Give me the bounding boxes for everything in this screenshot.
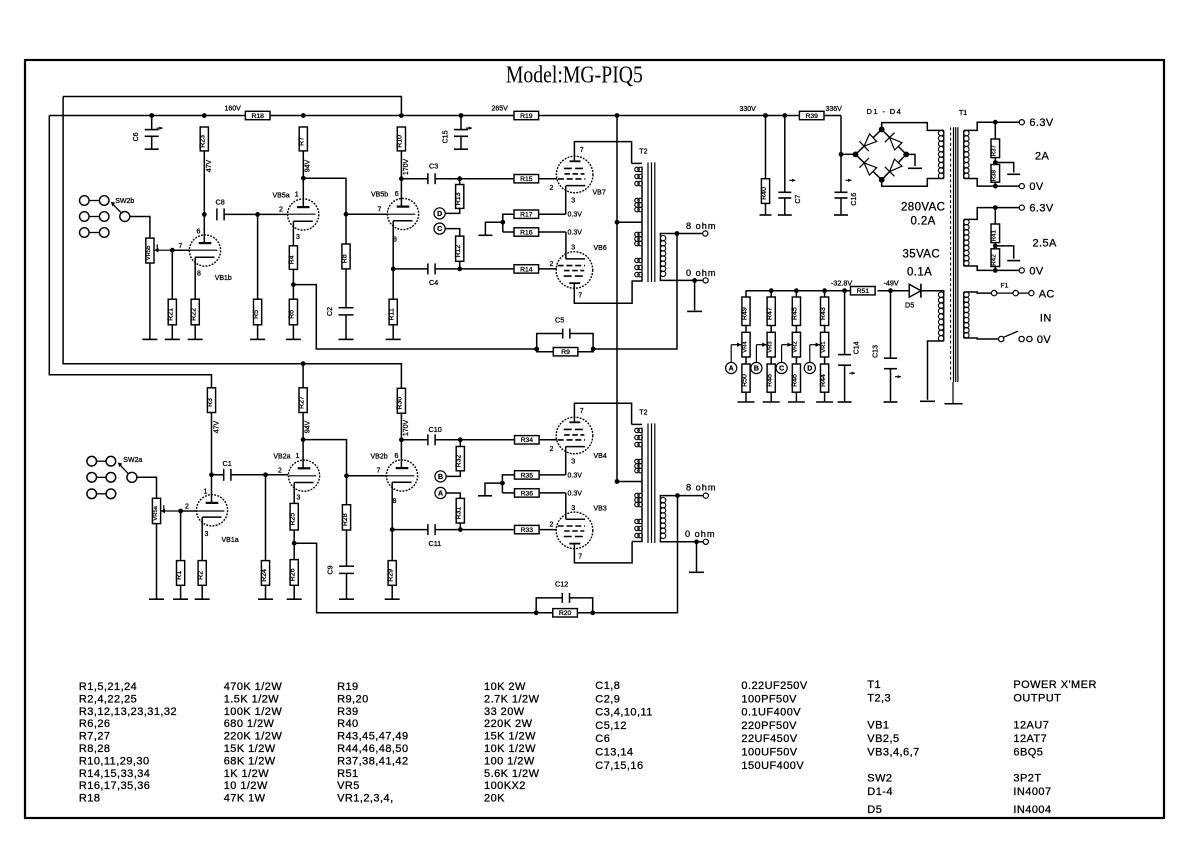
svg-text:R9: R9 [561, 349, 570, 356]
capacitor C7 [778, 179, 802, 204]
svg-text:SW2a: SW2a [123, 457, 142, 464]
resistor R6 [289, 299, 298, 325]
wire R30 to plate node [400, 413, 402, 440]
svg-text:R40: R40 [337, 718, 359, 730]
junction 0 ohm [692, 278, 697, 283]
transformer T1 primary 35VAC [938, 292, 943, 341]
resistor R41 [991, 224, 1000, 243]
svg-text:0V: 0V [1037, 334, 1052, 346]
svg-text:15K 1/2W: 15K 1/2W [224, 743, 276, 755]
svg-text:C9: C9 [328, 565, 335, 574]
svg-text:280VAC: 280VAC [901, 202, 945, 214]
svg-text:0 ohm: 0 ohm [685, 529, 716, 539]
junction 0 ohm lower [694, 539, 699, 544]
svg-text:T2,3: T2,3 [867, 693, 891, 705]
svg-text:VB2,5: VB2,5 [867, 733, 899, 745]
resistor VR2 [792, 332, 800, 357]
svg-text:R39: R39 [337, 706, 359, 718]
label VB6 pin 3 [571, 245, 575, 252]
svg-text:C12: C12 [555, 580, 568, 589]
svg-text:R33: R33 [521, 527, 534, 534]
junction bridge +/C16 [839, 152, 844, 157]
svg-text:SW2: SW2 [867, 773, 892, 785]
label 94V lower [304, 420, 311, 433]
svg-text:SW2b: SW2b [115, 198, 134, 205]
wire bridge edge TL [856, 129, 882, 154]
svg-text:R37,38,41,42: R37,38,41,42 [337, 755, 408, 767]
svg-text:160V: 160V [225, 106, 242, 113]
junction VB5a plate [301, 176, 306, 181]
wire VB1b plate lead [203, 214, 205, 243]
terminal 6.3V b [1019, 205, 1024, 210]
wire sec2 bottom lead [964, 266, 996, 270]
wire T2b primary bottom connector [632, 539, 642, 542]
junction sec1 top [993, 120, 998, 125]
wire VB4 plate to T2 [574, 403, 631, 424]
wire R14 to VB6 grid [539, 268, 557, 270]
svg-text:6: 6 [395, 191, 399, 198]
junction rail/R10 [399, 113, 404, 118]
label VB5b pin 8 [393, 237, 397, 244]
switch SW2b [80, 196, 135, 238]
wire sec2 to terminal [995, 207, 1019, 209]
parts list column 7 [867, 679, 919, 816]
wire R13 to D [445, 208, 460, 213]
wire R7 to plate node [302, 151, 304, 178]
transformer T2b primary lower B [635, 519, 643, 539]
label T1 [959, 110, 967, 117]
resistor R19 [514, 111, 539, 120]
junction grid VB1b/R21 [170, 248, 175, 253]
resistor VR3 [767, 332, 775, 357]
svg-text:0.22UF250V: 0.22UF250V [741, 680, 807, 692]
svg-text:C1: C1 [223, 459, 232, 468]
svg-text:3P2T: 3P2T [1013, 773, 1041, 785]
svg-text:C2,9: C2,9 [595, 693, 620, 705]
terminal 6.3V a [1019, 120, 1024, 125]
ground C7 [778, 214, 792, 216]
label VB3 pin 3 [571, 505, 575, 512]
junction R20 left [534, 610, 539, 615]
svg-text:R14,15,33,34: R14,15,33,34 [79, 768, 150, 780]
ground VR5a [149, 598, 164, 600]
resistor R33 [515, 525, 540, 534]
svg-text:R12: R12 [455, 245, 462, 258]
resistor R13 [455, 185, 464, 209]
wire R11 stem [392, 269, 394, 299]
junction bias rail [769, 288, 774, 293]
svg-text:R29: R29 [388, 569, 395, 582]
wire C7 ground stem [784, 198, 786, 215]
label VB5a pin 2 [279, 207, 283, 214]
label 0V b [1029, 266, 1044, 278]
svg-text:A: A [729, 366, 734, 373]
wire VR3-R48 [770, 357, 772, 364]
label 2.5A [1033, 238, 1057, 250]
label VB5b pin 7 [378, 207, 382, 214]
resistor VR4 [742, 332, 750, 357]
wire R13 top [459, 179, 461, 185]
svg-text:R3,12,13,23,31,32: R3,12,13,23,31,32 [79, 706, 177, 718]
label D1 - D4 [867, 107, 903, 116]
resistor R43 [820, 297, 829, 326]
svg-text:D5: D5 [905, 301, 914, 310]
wire R49-VR4 [745, 326, 747, 333]
svg-text:C7: C7 [795, 195, 802, 204]
transformer T2b primary upper B [635, 459, 643, 474]
wire D5 to 35VAC winding [921, 291, 944, 292]
label 330V [740, 106, 757, 113]
wire VB6 plate to T2 [574, 281, 632, 303]
svg-text:8: 8 [393, 498, 397, 505]
label VB5a [273, 193, 290, 200]
svg-text:10K 2W: 10K 2W [484, 681, 526, 693]
svg-text:35VAC: 35VAC [903, 249, 941, 261]
wire R47-VR3 [770, 326, 772, 333]
svg-text:2: 2 [278, 468, 282, 475]
label VB3 [594, 506, 607, 513]
wire bias rail [746, 290, 851, 292]
svg-text:B: B [754, 366, 759, 373]
tube VB2b envelope [386, 460, 417, 491]
svg-text:R50: R50 [741, 374, 748, 387]
resistor R28 [342, 505, 351, 530]
label 0 ohm top [686, 268, 717, 278]
label 94V [305, 159, 312, 172]
wire bridge edge BR [882, 154, 907, 179]
svg-text:2.7K 1/2W: 2.7K 1/2W [484, 693, 540, 705]
capacitor C12 [555, 580, 570, 603]
ground bias top [478, 234, 492, 236]
label 8 ohm bottom [686, 483, 717, 493]
wire feedback tap [293, 285, 536, 349]
capacitor C6 [133, 126, 163, 141]
junction C3/R13/R15 [457, 176, 462, 181]
wire VB7 cathode lead [565, 186, 567, 215]
wire mains top lead [964, 292, 992, 293]
svg-text:R1: R1 [176, 571, 183, 580]
wire left drop to lower channel R27 feed [63, 97, 401, 389]
label VB3 pin 2 [550, 522, 554, 529]
wire sec1 bottom to terminal [995, 185, 1019, 187]
wire R29 stem [391, 530, 393, 561]
junction VB2a plate [301, 437, 306, 442]
svg-text:3: 3 [571, 245, 575, 252]
svg-text:D1 - D4: D1 - D4 [867, 107, 903, 116]
svg-text:R34: R34 [521, 437, 534, 444]
svg-text:VB5a: VB5a [273, 193, 290, 200]
transformer T2b secondary [660, 498, 665, 539]
wire C1 right [231, 474, 266, 476]
potentiometer VR2 wiper [782, 343, 792, 363]
svg-text:C13: C13 [873, 345, 880, 358]
wire R9 left lead [537, 349, 554, 352]
wire R44 ground stem [824, 392, 826, 402]
wire C12 loop right [570, 598, 593, 613]
ground VR5b [142, 338, 157, 340]
wire to VB1a grid [181, 510, 197, 512]
svg-text:R10: R10 [397, 135, 404, 148]
wire C14 stem [844, 291, 846, 355]
ground C13 [884, 401, 898, 403]
resistor R31 [456, 498, 465, 523]
wire R5 stem [257, 214, 259, 299]
label VB2a [273, 454, 290, 461]
wire R46 ground stem [795, 392, 797, 402]
diode D5 [909, 284, 921, 298]
wire to R15 [460, 178, 514, 180]
svg-text:33 20W: 33 20W [484, 706, 525, 718]
svg-text:R23: R23 [200, 135, 207, 148]
switch mains [999, 331, 1033, 341]
resistor R12 [455, 236, 464, 261]
capacitor C10 [428, 425, 442, 445]
svg-text:R41: R41 [991, 229, 998, 241]
label T2 bottom [639, 410, 647, 417]
junction VB2b plate/C10 [399, 437, 404, 442]
label VB2a pin 1 [296, 453, 300, 460]
label 8 ohm top [686, 221, 717, 231]
wire VR2-R46 [795, 357, 797, 364]
svg-text:R44: R44 [820, 374, 827, 387]
svg-text:R15: R15 [520, 176, 533, 183]
label VB6 [594, 245, 607, 252]
svg-text:5.6K 1/2W: 5.6K 1/2W [484, 768, 540, 780]
label T2 top [639, 148, 647, 155]
wire R45-VR2 [795, 326, 797, 333]
wire feedback tap lower [294, 543, 536, 613]
wire R34 to VB4 grid [539, 439, 557, 441]
ground R48 [763, 401, 780, 403]
svg-text:D5: D5 [867, 804, 882, 816]
wire R21 stem [171, 250, 173, 299]
wire C13 stem [890, 291, 892, 359]
label VB5a pin 1 [295, 192, 299, 199]
wire VB3 plate to T2 [574, 542, 632, 563]
wire T2 center tap [617, 221, 642, 223]
ground R11 [386, 338, 401, 340]
svg-text:R43,45,47,49: R43,45,47,49 [337, 731, 408, 743]
wire bridge edge BL [856, 154, 882, 179]
svg-text:VB1b: VB1b [215, 275, 232, 282]
junction 8 ohm tap [675, 231, 680, 236]
tube VB5b envelope [387, 198, 418, 229]
wire to 0 ohm terminal [695, 279, 703, 281]
svg-text:2: 2 [550, 446, 554, 453]
svg-text:R19: R19 [520, 113, 533, 120]
wire R22 ground stem [194, 325, 196, 340]
junction R37/R38 [993, 160, 998, 165]
wire T2b secondary bottom lead [660, 539, 696, 542]
label VB5b pin 6 [395, 191, 399, 198]
capacitor C3 [428, 162, 438, 185]
label VB2b pin 6 [395, 453, 399, 460]
svg-text:D: D [807, 366, 812, 373]
junction R9 right [591, 347, 596, 352]
resistor R50 [741, 364, 750, 392]
svg-text:12AU7: 12AU7 [1013, 720, 1049, 732]
wire C5 loop [537, 334, 563, 350]
svg-text:1: 1 [295, 192, 299, 199]
svg-text:R51: R51 [857, 288, 870, 295]
wire bridge edge TR [882, 129, 907, 154]
svg-text:C5,12: C5,12 [595, 720, 627, 732]
wire A to R31 [446, 493, 460, 498]
junction sec2 top [993, 205, 998, 210]
node A [726, 362, 737, 373]
wire R27 to plate node [302, 413, 304, 440]
wire T2 spine mid3 [641, 247, 643, 258]
resistor R22 [191, 299, 200, 325]
transformer T2b primary lower A [635, 493, 643, 508]
resistor R21 [168, 299, 177, 325]
tube VB5a envelope [288, 199, 319, 230]
svg-text:C7,15,16: C7,15,16 [595, 760, 643, 772]
wire heater2 ct ground [995, 246, 1013, 259]
svg-text:12AT7: 12AT7 [1013, 733, 1047, 745]
potentiometer VR4 wiper [731, 343, 741, 363]
label 0.3V lower a [568, 473, 583, 480]
svg-text:R4: R4 [289, 255, 296, 264]
svg-text:2: 2 [550, 261, 554, 268]
svg-text:100K 1/2W: 100K 1/2W [224, 706, 283, 718]
wire R35 to VB4 cathode [539, 474, 566, 476]
fuse F1 [991, 290, 1028, 295]
wire T2b spine mid [641, 448, 643, 459]
wire C12 loop [536, 598, 562, 613]
svg-text:C16: C16 [851, 193, 858, 206]
ground R21 [165, 338, 180, 340]
junction 8 ohm tap lower [675, 493, 680, 498]
svg-text:R6: R6 [289, 310, 296, 319]
wire upper link [63, 97, 401, 116]
wire C2 ground stem [345, 315, 347, 340]
svg-text:R21: R21 [168, 308, 175, 321]
svg-text:7: 7 [377, 468, 381, 475]
wire R29 ground stem [391, 585, 393, 599]
wire HT center line [616, 116, 618, 482]
label VB4 pin 2 [550, 446, 554, 453]
svg-text:0V: 0V [1029, 181, 1044, 193]
parts list column 8 [1013, 679, 1096, 816]
svg-text:7: 7 [580, 147, 584, 154]
junction VB1a plate/C1 [209, 472, 214, 477]
svg-text:R18: R18 [251, 113, 264, 120]
svg-text:D1-4: D1-4 [867, 786, 893, 798]
wire R32 to B [446, 471, 460, 477]
wire R16 to VB6 cathode [539, 231, 566, 233]
label VB1b pin 7 [179, 243, 183, 250]
junction bias rail/C14 [842, 288, 847, 293]
svg-text:220K 1/2W: 220K 1/2W [224, 731, 283, 743]
junction R8/VB5b grid wire [344, 212, 349, 217]
potentiometer VR3 wiper [756, 343, 766, 363]
svg-text:C3,4,10,11: C3,4,10,11 [595, 707, 653, 719]
svg-text:0 ohm: 0 ohm [686, 268, 717, 278]
capacitor C11 [428, 524, 441, 548]
wire R41-R42 [994, 243, 996, 249]
svg-text:VB6: VB6 [594, 245, 607, 252]
svg-text:VB5b: VB5b [371, 192, 388, 199]
wire T2 spine mid [641, 187, 643, 198]
wire VB7 plate to T2 [574, 142, 631, 164]
resistor R36 [515, 489, 540, 498]
wire bias ground lower [485, 483, 502, 495]
svg-text:470K 1/2W: 470K 1/2W [224, 681, 283, 693]
tube VB7 envelope [556, 156, 593, 193]
svg-text:47V: 47V [214, 420, 221, 433]
svg-text:170V: 170V [403, 159, 410, 176]
svg-text:0.2A: 0.2A [911, 216, 936, 228]
junction bridge bottom [879, 177, 885, 183]
resistor R29 [388, 561, 397, 586]
junction C4/VB5b cathode [391, 267, 396, 272]
junction C11/R31/R33 [458, 527, 463, 532]
svg-text:VR3: VR3 [768, 341, 774, 353]
terminal AC [1029, 291, 1034, 296]
resistor R3 [207, 388, 216, 413]
capacitor C4 [428, 263, 438, 287]
wire C6 lower stem [151, 136, 153, 149]
wire to 8 ohm terminal [677, 233, 703, 235]
wire R32 top [459, 440, 461, 447]
svg-text:T2: T2 [639, 148, 647, 155]
resistor R5 [253, 299, 262, 325]
transformer T2 primary upper A [635, 167, 643, 187]
ground bridge [908, 167, 922, 169]
svg-text:R22: R22 [191, 308, 198, 321]
svg-text:R44,46,48,50: R44,46,48,50 [337, 743, 408, 755]
resistor R24 [261, 561, 270, 586]
svg-text:VB2a: VB2a [273, 454, 290, 461]
label VB2b pin 8 [393, 498, 397, 505]
junction rail/C6 [149, 113, 154, 118]
transformer T1 core ground [945, 382, 963, 404]
junction sec2 bottom [993, 268, 998, 273]
wire C7 stem [784, 116, 786, 193]
svg-text:R7: R7 [299, 137, 306, 146]
wire R2 ground stem [201, 585, 203, 599]
resistor R2 [198, 561, 207, 586]
svg-text:8 ohm: 8 ohm [686, 483, 717, 493]
wire VR1-R44 [824, 357, 826, 364]
svg-text:680 1/2W: 680 1/2W [224, 718, 275, 730]
svg-text:R24: R24 [261, 569, 268, 582]
wire VB2a plate lead [302, 440, 304, 468]
svg-text:0.3V: 0.3V [568, 473, 583, 480]
label VB1a pin 1 [204, 489, 208, 496]
resistor VR5b [146, 238, 154, 263]
svg-text:A: A [438, 491, 443, 498]
wire C13 ground stem [890, 369, 892, 402]
wire mains bottom lead [964, 338, 999, 339]
wire C to R12 [445, 229, 460, 237]
svg-text:C14: C14 [854, 341, 861, 354]
svg-text:20K: 20K [484, 793, 505, 805]
svg-text:T2: T2 [639, 410, 647, 417]
ground C15 [454, 148, 468, 150]
wire left drop to lower channel R3 feed [49, 116, 211, 388]
svg-text:VR1: VR1 [821, 341, 827, 352]
svg-text:47V: 47V [206, 159, 213, 172]
wire R37 stem [994, 122, 996, 139]
resistor R1 [176, 561, 185, 586]
node C [776, 362, 787, 373]
junction R20 right [590, 610, 595, 615]
wire VB5b cathode lead [392, 221, 394, 269]
wire R15 to VB7 grid [539, 178, 557, 180]
label VB1a [222, 537, 239, 544]
